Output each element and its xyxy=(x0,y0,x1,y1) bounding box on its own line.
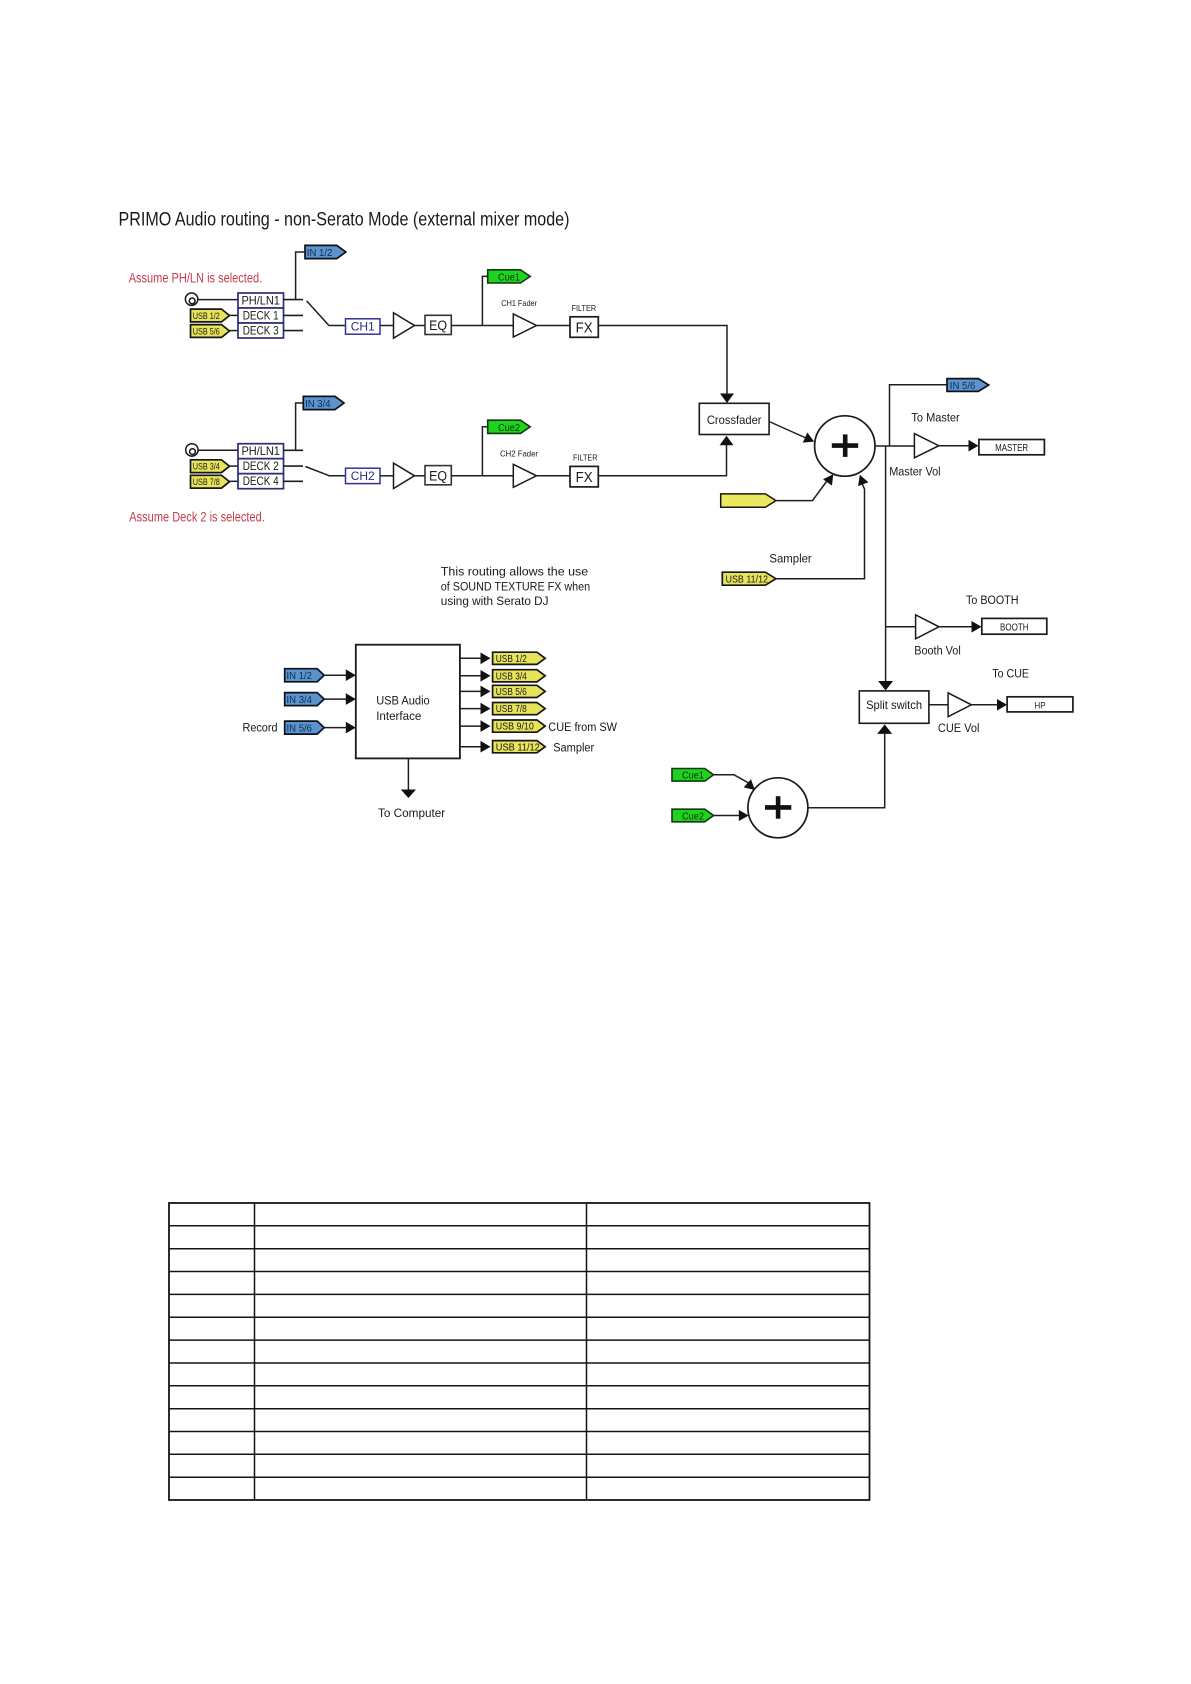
svg-text:To CUE: To CUE xyxy=(992,667,1029,681)
svg-text:CH2 Fader: CH2 Fader xyxy=(500,449,538,459)
label USB 1/2 (interface out) xyxy=(496,654,527,665)
wire IN1/2 down to PH/LN1 stub xyxy=(296,252,305,299)
tag Cue2 xyxy=(488,420,531,433)
wire interface out USB 5/6 xyxy=(460,690,484,692)
wire CH1 to amp xyxy=(380,325,394,327)
label Sampler (interface out) xyxy=(553,740,594,754)
label Cue1 xyxy=(498,273,520,284)
label FILTER CH1 xyxy=(572,304,597,313)
label USB 7/8 (interface out) xyxy=(496,704,527,715)
wire cue sum out xyxy=(808,807,886,809)
svg-text:EQ: EQ xyxy=(429,318,447,333)
box FX CH2 xyxy=(570,466,598,487)
svg-text:USB 1/2: USB 1/2 xyxy=(496,654,527,665)
stub DECK4 out xyxy=(284,480,304,482)
svg-text:CUE Vol: CUE Vol xyxy=(938,721,980,735)
box HP out xyxy=(1007,697,1073,712)
svg-text:To Master: To Master xyxy=(911,410,959,424)
label Booth Vol xyxy=(914,644,961,658)
label To Master xyxy=(911,410,959,424)
label IN 3/4 (interface) xyxy=(287,695,313,706)
wire fader to FX CH2 xyxy=(537,475,571,477)
label Split switch xyxy=(866,698,922,712)
label Master Vol xyxy=(889,465,940,479)
wire split to cue vol xyxy=(929,704,948,706)
label FX (2) xyxy=(576,470,593,486)
title text xyxy=(119,209,570,231)
phono/line source icon CH2 xyxy=(186,444,198,456)
wire blank tag to sum xyxy=(776,480,828,501)
label CH2 Fader xyxy=(500,449,538,459)
wire branch to booth xyxy=(886,626,916,628)
label USB 11/12 (interface out) xyxy=(496,742,540,753)
svg-text:of SOUND TEXTURE FX when: of SOUND TEXTURE FX when xyxy=(441,580,590,594)
label FILTER CH2 xyxy=(573,453,598,462)
tag IN 3/4 (interface in) xyxy=(285,693,325,706)
label DECK 4 xyxy=(243,475,279,488)
label HP xyxy=(1035,700,1046,711)
note: Assume PH/LN is selected xyxy=(129,271,263,286)
label USB 9/10 (interface out) xyxy=(496,722,534,733)
input select box CH1 cell PH/LN1 xyxy=(238,293,284,308)
label To Computer xyxy=(378,806,445,820)
stub DECK2 out xyxy=(284,465,304,467)
wire IN3/4 into interface xyxy=(324,698,347,700)
arrow IN5/6 into box xyxy=(346,722,356,734)
svg-text:IN 5/6: IN 5/6 xyxy=(287,723,313,734)
label To CUE xyxy=(992,667,1029,681)
box CH1 xyxy=(346,319,381,334)
arrow into sum from crossfader xyxy=(803,433,814,443)
stub PH/LN1 out xyxy=(284,299,304,301)
wire amp to EQ (2) xyxy=(415,475,426,477)
tag IN 3/4 xyxy=(303,396,344,409)
arrow into HP box xyxy=(997,699,1007,711)
label To BOOTH xyxy=(966,593,1019,607)
note routing line2 xyxy=(441,580,590,594)
arrow into BOOTH box xyxy=(972,621,982,633)
fader triangle CH2 xyxy=(513,464,536,487)
wire interface out USB 9/10 xyxy=(460,725,484,727)
wire interface out USB 7/8 xyxy=(460,708,484,710)
wire blade to CH1 box xyxy=(328,325,345,327)
svg-text:CH1: CH1 xyxy=(351,320,375,334)
wire branch up to Cue2 xyxy=(482,427,487,476)
label Interface xyxy=(376,709,421,723)
svg-text:using with Serato DJ: using with Serato DJ xyxy=(441,594,549,608)
arrow out USB 3/4 xyxy=(481,670,491,682)
tag USB 5/6 (deck3 in) xyxy=(191,325,230,338)
wire FX CH1 to crossfader xyxy=(598,326,727,395)
wire USB7/8 to DECK 4 xyxy=(230,480,239,482)
svg-text:IN 3/4: IN 3/4 xyxy=(305,399,331,410)
arrow out USB 5/6 xyxy=(481,686,491,698)
input select box CH2 cell PH/LN1 xyxy=(238,444,284,459)
label USB 5/6 xyxy=(193,327,220,338)
svg-text:CH1 Fader: CH1 Fader xyxy=(501,298,537,308)
label Cue2 xyxy=(498,423,520,434)
label PH/LN1 xyxy=(241,295,280,308)
label DECK 1 xyxy=(243,310,279,323)
switch blade CH1 (PH/LN selected) xyxy=(307,301,329,325)
tag USB 11/12 (interface out) xyxy=(493,741,546,753)
svg-text:BOOTH: BOOTH xyxy=(1000,623,1029,634)
wire IN3/4 down to PH/LN1 stub (2) xyxy=(296,403,304,450)
wire sum out to master junction xyxy=(875,445,914,447)
label DECK 3 xyxy=(243,325,279,338)
label BOOTH xyxy=(1000,623,1029,634)
sum node circle (master) xyxy=(815,416,875,476)
wire USB1/2 to DECK 1 xyxy=(230,314,239,316)
wire Cue2 to cue sum xyxy=(714,815,742,817)
svg-text:Crossfader: Crossfader xyxy=(707,413,762,427)
svg-text:USB 7/8: USB 7/8 xyxy=(496,704,527,715)
wire booth vol to BOOTH box xyxy=(939,626,975,628)
label EQ (2) xyxy=(429,468,447,483)
stub PH/LN1 out (2) xyxy=(284,449,304,451)
wire master vol to MASTER box xyxy=(939,445,972,447)
tag IN 1/2 (interface in) xyxy=(285,669,325,682)
tag IN 5/6 (interface in) xyxy=(285,721,325,734)
label FX xyxy=(576,320,593,336)
plus sign cue sum xyxy=(765,796,791,819)
box MASTER out xyxy=(979,440,1045,455)
svg-text:FILTER: FILTER xyxy=(572,304,597,313)
label USB Audio xyxy=(376,693,430,707)
label Cue2 (cue bus) xyxy=(682,811,704,822)
svg-text:Record: Record xyxy=(243,720,278,734)
wire Cue1 to cue sum xyxy=(714,775,750,784)
note: Assume Deck 2 is selected xyxy=(129,509,264,524)
arrow into split switch bottom xyxy=(877,724,892,734)
amp triangle CH1 xyxy=(394,313,415,338)
svg-text:HP: HP xyxy=(1035,700,1046,711)
wire USB3/4 to DECK 2 xyxy=(230,465,239,467)
box BOOTH out xyxy=(982,618,1047,634)
wire IN1/2 into interface xyxy=(324,674,347,676)
tag USB 11/12 (sampler in) xyxy=(722,572,776,585)
stub DECK3 out xyxy=(284,330,304,332)
amp triangle Booth Vol xyxy=(916,615,939,639)
label CUE Vol xyxy=(938,721,980,735)
tag IN 1/2 xyxy=(305,245,346,258)
tag IN 5/6 (master rec) xyxy=(947,379,989,392)
stub DECK1 out xyxy=(284,314,304,316)
wire branch up to Cue1 xyxy=(482,276,487,325)
svg-text:USB 9/10: USB 9/10 xyxy=(496,722,534,733)
arrow to computer xyxy=(401,790,416,799)
tag USB 5/6 (interface out) xyxy=(493,685,546,697)
wire interface out USB 3/4 xyxy=(460,675,484,677)
wire branch up to IN 5/6 xyxy=(890,385,948,446)
label USB 1/2 xyxy=(193,311,220,322)
note routing line3 xyxy=(441,594,549,608)
svg-text:USB Audio: USB Audio xyxy=(376,693,430,707)
svg-text:IN 3/4: IN 3/4 xyxy=(287,695,313,706)
input select box CH1 cell DECK 1 xyxy=(238,308,284,323)
tag Cue1 (cue bus) xyxy=(672,769,714,782)
wire interface out USB 1/2 xyxy=(460,657,484,659)
tag USB 3/4 (deck2 in) xyxy=(191,460,230,473)
svg-text:Sampler: Sampler xyxy=(769,552,811,566)
svg-text:Cue1: Cue1 xyxy=(682,771,704,782)
box Split switch xyxy=(859,691,929,723)
label IN 3/4 xyxy=(305,399,331,410)
label CH1 xyxy=(351,320,375,334)
input select box CH1 cell DECK 3 xyxy=(238,323,284,338)
switch blade CH2 (Deck 2 selected) xyxy=(305,467,328,476)
box FX CH1 xyxy=(570,317,598,338)
wire phono to PH/LN1 (2) xyxy=(198,449,238,451)
label Record xyxy=(243,720,278,734)
arrow into split switch top xyxy=(878,681,893,691)
tag USB 7/8 (deck4 in) xyxy=(191,475,230,488)
svg-text:USB 3/4: USB 3/4 xyxy=(193,462,220,473)
amp triangle CUE Vol xyxy=(948,693,971,717)
svg-text:MASTER: MASTER xyxy=(995,443,1028,454)
box EQ CH1 xyxy=(425,315,451,334)
box Crossfader xyxy=(699,403,769,434)
arrow IN3/4 into box xyxy=(346,693,356,705)
arrow into crossfader bottom xyxy=(720,436,734,446)
label Sampler (crossfader) xyxy=(769,552,811,566)
wire EQ to fader CH2 xyxy=(451,475,513,477)
arrow into crossfader top xyxy=(720,394,734,404)
wire FX CH2 to crossfader xyxy=(598,445,726,476)
tag USB 7/8 (interface out) xyxy=(493,703,546,715)
svg-text:PH/LN1: PH/LN1 xyxy=(241,295,280,308)
box USB Audio Interface xyxy=(356,645,460,759)
label USB 5/6 (interface out) xyxy=(496,687,527,698)
wire CH2 to amp xyxy=(380,475,394,477)
svg-text:FX: FX xyxy=(576,320,593,336)
note routing line1 xyxy=(441,565,589,579)
arrow out USB 11/12 xyxy=(481,741,491,753)
tag USB 3/4 (interface out) xyxy=(493,670,546,682)
svg-text:IN 1/2: IN 1/2 xyxy=(307,248,333,259)
fader triangle CH1 xyxy=(513,314,536,337)
svg-text:DECK 2: DECK 2 xyxy=(243,460,279,473)
label CUE from SW xyxy=(548,720,617,734)
svg-text:IN 1/2: IN 1/2 xyxy=(287,671,313,682)
wire fader to FX CH1 xyxy=(537,325,571,327)
label CH1 Fader xyxy=(501,298,537,308)
wire main vertical down xyxy=(885,446,887,682)
label IN 5/6 (master rec) xyxy=(950,381,976,392)
svg-text:CUE from SW: CUE from SW xyxy=(548,720,617,734)
wire phono to PH/LN1 xyxy=(198,299,238,301)
svg-text:USB 5/6: USB 5/6 xyxy=(193,327,220,338)
arrow into cue sum upper-left xyxy=(744,779,755,790)
label USB 3/4 xyxy=(193,462,220,473)
label IN 1/2 xyxy=(307,248,333,259)
input select box CH2 cell DECK 2 xyxy=(238,459,284,474)
svg-text:Assume Deck 2 is selected.: Assume Deck 2 is selected. xyxy=(129,509,264,524)
arrow out USB 9/10 xyxy=(481,720,491,732)
svg-text:Cue2: Cue2 xyxy=(682,811,704,822)
wire cue vol to HP box xyxy=(971,704,1000,706)
svg-text:EQ: EQ xyxy=(429,468,447,483)
arrow into sum bottom xyxy=(858,475,868,486)
wire cue sum up to split switch xyxy=(884,734,886,808)
arrow out USB 1/2 xyxy=(481,653,491,665)
amp triangle Master Vol xyxy=(914,434,938,458)
svg-text:DECK 4: DECK 4 xyxy=(243,475,279,488)
label USB 3/4 (interface out) xyxy=(496,671,527,682)
label IN 5/6 (interface) xyxy=(287,723,313,734)
label EQ xyxy=(429,318,447,333)
svg-text:Interface: Interface xyxy=(376,709,421,723)
label PH/LN1 (2) xyxy=(241,445,280,458)
svg-text:CH2: CH2 xyxy=(351,469,375,483)
box EQ CH2 xyxy=(425,466,451,485)
label CH2 xyxy=(351,469,375,483)
svg-text:Master Vol: Master Vol xyxy=(889,465,940,479)
svg-text:Cue1: Cue1 xyxy=(498,273,520,284)
arrow out USB 7/8 xyxy=(481,703,491,715)
svg-text:This routing allows the use: This routing allows the use xyxy=(441,565,589,579)
box CH2 xyxy=(346,468,381,483)
svg-text:To Computer: To Computer xyxy=(378,806,445,820)
tag USB 9/10 (interface out) xyxy=(493,720,546,732)
label MASTER xyxy=(995,443,1028,454)
tag Cue2 (cue bus) xyxy=(672,809,714,822)
svg-text:PRIMO Audio routing - non-Sera: PRIMO Audio routing - non-Serato Mode (e… xyxy=(119,209,570,231)
svg-text:Booth Vol: Booth Vol xyxy=(914,644,961,658)
phono/line source icon CH1 xyxy=(185,293,197,305)
tag USB 1/2 (deck1 in) xyxy=(191,309,230,322)
wire EQ to fader CH1 xyxy=(451,325,513,327)
svg-text:To BOOTH: To BOOTH xyxy=(966,593,1019,607)
svg-text:Sampler: Sampler xyxy=(553,740,594,754)
wire crossfader to sum xyxy=(769,422,806,439)
svg-text:USB 5/6: USB 5/6 xyxy=(496,687,527,698)
svg-text:FILTER: FILTER xyxy=(573,453,598,462)
label IN 1/2 (interface) xyxy=(287,671,313,682)
wire blade to CH2 box xyxy=(328,475,345,477)
svg-text:FX: FX xyxy=(576,470,593,486)
wire USB11/12 to sum xyxy=(776,481,865,579)
wire IN5/6 into interface xyxy=(324,727,347,729)
arrow IN1/2 into box xyxy=(346,669,356,681)
arrow into cue sum left xyxy=(739,810,749,821)
svg-text:USB 11/12: USB 11/12 xyxy=(496,742,540,753)
svg-text:Cue2: Cue2 xyxy=(498,423,520,434)
svg-text:DECK 1: DECK 1 xyxy=(243,310,279,323)
wire interface out USB 11/12 xyxy=(460,746,484,748)
svg-text:DECK 3: DECK 3 xyxy=(243,325,279,338)
svg-text:Split switch: Split switch xyxy=(866,698,922,712)
wire amp to EQ xyxy=(415,325,426,327)
tag USB 1/2 (interface out) xyxy=(493,652,546,664)
svg-text:USB 1/2: USB 1/2 xyxy=(193,311,220,322)
arrow into sum lower-left xyxy=(823,474,833,485)
svg-text:USB 7/8: USB 7/8 xyxy=(193,477,220,488)
svg-text:USB 11/12: USB 11/12 xyxy=(726,574,769,585)
svg-text:Assume PH/LN is selected.: Assume PH/LN is selected. xyxy=(129,271,263,286)
svg-text:USB 3/4: USB 3/4 xyxy=(496,671,527,682)
sum node circle (cue) xyxy=(748,778,808,838)
tag blank (crossfader assign) xyxy=(721,494,776,507)
label Cue1 (cue bus) xyxy=(682,771,704,782)
plus sign master sum xyxy=(832,434,858,457)
amp triangle CH2 xyxy=(394,463,415,488)
wire USB5/6 to DECK 3 xyxy=(230,330,239,332)
empty routing table xyxy=(169,1203,870,1500)
label Crossfader xyxy=(707,413,762,427)
svg-text:PH/LN1: PH/LN1 xyxy=(241,445,280,458)
tag Cue1 xyxy=(488,270,531,283)
wire interface to computer xyxy=(407,758,409,790)
svg-text:IN 5/6: IN 5/6 xyxy=(950,381,976,392)
label USB 11/12 (sampler) xyxy=(726,574,769,585)
label DECK 2 xyxy=(243,460,279,473)
arrow into MASTER box xyxy=(969,440,979,452)
input select box CH2 cell DECK 4 xyxy=(238,474,284,489)
label USB 7/8 xyxy=(193,477,220,488)
